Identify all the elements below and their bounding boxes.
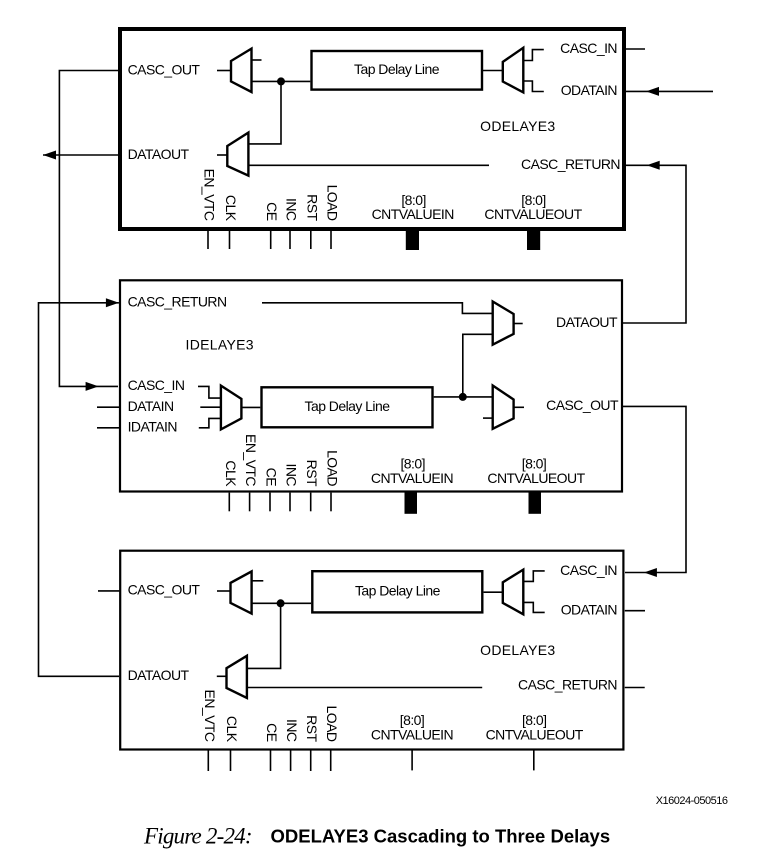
mux M4 input select (middle) [221,386,242,430]
wire DATAIN to M4 [200,406,221,408]
stub M5 output [514,323,523,325]
wire delay box to mux M3 [483,70,503,72]
wire node down to M2 [248,81,281,143]
wire delay out to M6 with node [434,396,493,398]
wire M7 to delay box with node [252,602,312,604]
pin CLK (top block) [229,231,231,249]
pin INC (bottom block) [290,750,292,771]
pin CNTVALUEOUT (bottom block) [533,750,535,770]
wire ODATAIN top-right [626,90,713,92]
stub IDATAIN external [97,427,119,429]
wire M2 lower input from CASC_RETURN [248,164,489,166]
bus CNTVALUEOUT (top block) [527,229,540,250]
svg-text:DATAOUT: DATAOUT [556,314,618,330]
svg-text:Tap Delay Line: Tap Delay Line [305,398,391,414]
pin INC (top block) [289,231,291,249]
pin RST (bottom block) [310,750,312,771]
svg-text:CASC_IN: CASC_IN [560,562,617,578]
svg-text:CASC_RETURN: CASC_RETURN [128,294,227,310]
svg-text:CASC_IN: CASC_IN [560,40,617,56]
pin RST (middle) [310,493,312,512]
svg-text:DATAOUT: DATAOUT [128,146,190,162]
pin EN_VTC (bottom block) [207,750,209,771]
svg-text:CNTVALUEOUT: CNTVALUEOUT [484,206,582,222]
svg-text:DATAIN: DATAIN [128,398,174,414]
svg-text:X16024-050516: X16024-050516 [656,795,728,807]
arrowhead top CASC_RETURN [647,161,660,170]
svg-text:CE: CE [264,202,280,221]
pin CE (top block) [270,231,272,249]
wire middle DATAOUT to top CASC_RETURN (right) [623,165,686,323]
svg-text:CASC_OUT: CASC_OUT [128,582,201,598]
svg-text:LOAD: LOAD [325,450,341,486]
stub M6 lower input [483,417,493,419]
arrowhead into middle CASC_RETURN [106,298,119,307]
wire M8 lower input from CASC_RETURN [247,687,482,689]
stub CASC_OUT external (bottom block) [98,590,119,592]
wire middle CASC_OUT to bottom CASC_IN [623,406,686,572]
wire M3 elbow to ODATAIN [523,81,544,92]
svg-text:[8:0]: [8:0] [400,712,425,728]
delay box Tap Delay Line (bottom block) [312,571,482,612]
wire M4 to delay box [241,406,260,408]
svg-text:CLK: CLK [224,716,240,743]
svg-text:ODATAIN: ODATAIN [561,602,617,618]
bus CNTVALUEIN (middle) [405,491,418,514]
pin LOAD (bottom block) [330,750,332,771]
pin RST (top block) [310,231,312,249]
stub DATAIN external [97,406,119,408]
pin EN_VTC (middle) [249,493,251,512]
wire IDATAIN elbow to M4 [199,418,221,427]
svg-text:CNTVALUEOUT: CNTVALUEOUT [487,470,585,486]
svg-text:CNTVALUEIN: CNTVALUEIN [371,470,453,486]
pin EN_VTC (top block) [207,231,209,249]
node junction dot (top block) [277,77,285,85]
mux M7 CASC_OUT (bottom block) [231,571,252,613]
wire M3 elbow to CASC_IN [523,50,544,61]
pin CLK (middle) [228,493,230,512]
bus CNTVALUEOUT (middle) [529,491,542,514]
arrowhead bottom CASC_IN [644,568,657,577]
wire bottom DATAOUT to middle CASC_RETURN (left tall) [39,303,120,677]
svg-text:RST: RST [304,715,320,742]
svg-text:CLK: CLK [223,460,239,487]
svg-text:LOAD: LOAD [325,185,341,221]
svg-text:ODELAYE3: ODELAYE3 [480,642,555,658]
svg-text:Tap Delay Line: Tap Delay Line [354,61,440,77]
svg-text:RST: RST [304,460,320,487]
svg-text:INC: INC [284,719,300,742]
pin CNTVALUEIN (bottom block) [411,750,413,770]
stub CASC_IN top-right [626,48,645,50]
svg-text:Tap Delay Line: Tap Delay Line [355,583,441,599]
stub M7 top input [252,580,264,582]
mux M1 CASC_OUT (top block) [231,49,252,92]
pin INC (middle) [289,493,291,512]
mux M5 DATAOUT (middle) [493,302,514,345]
delay box Tap Delay Line (top block) [312,51,483,90]
wire DATAOUT top-left out [43,154,118,156]
wire stub label to mux M2 [217,154,227,156]
svg-text:Figure 2-24:: Figure 2-24: [143,824,252,849]
svg-text:IDELAYE3: IDELAYE3 [186,337,254,353]
svg-text:CNTVALUEOUT: CNTVALUEOUT [486,727,584,743]
arrowhead ODATAIN [646,87,659,96]
wire delay box to mux M9 [484,591,503,593]
svg-text:CE: CE [264,723,280,742]
arrowhead into middle CASC_IN [86,382,99,391]
pin CLK (bottom block) [230,750,232,771]
svg-text:ODATAIN: ODATAIN [561,82,617,98]
wire node down to M8 [247,603,281,668]
mux M6 CASC_OUT (middle) [493,386,514,429]
node junction dot (middle) [459,393,467,401]
svg-text:CASC_IN: CASC_IN [128,377,185,393]
bus CNTVALUEIN (top block) [406,229,419,250]
stub M6 output [514,406,524,408]
wire node up to M5 [463,334,493,397]
wire stub label to mux M7 [217,590,231,592]
mux M8 DATAOUT (bottom block) [227,656,247,698]
svg-text:LOAD: LOAD [324,706,340,742]
block outline ODELAYE3 bottom [120,551,623,750]
svg-text:EN_VTC: EN_VTC [202,169,218,221]
svg-text:CASC_RETURN: CASC_RETURN [521,156,620,172]
svg-text:INC: INC [284,464,300,487]
svg-text:CASC_OUT: CASC_OUT [546,397,619,413]
pin CE (middle) [269,493,271,512]
stub M1 top input [252,59,262,61]
svg-text:CASC_RETURN: CASC_RETURN [518,676,617,692]
stub ODATAIN external (bottom block) [625,610,645,612]
wire CASC_OUT top-left to middle CASC_IN [59,71,118,387]
pin LOAD (middle) [330,493,332,512]
mux M3 ODATAIN select (top block) [503,48,524,93]
arrowhead DATAOUT out [43,151,56,160]
wire M9 elbow to ODATAIN [523,602,544,612]
node junction dot (bottom block) [277,599,285,607]
wire M9 elbow to CASC_IN [523,571,544,582]
pin CE (bottom block) [270,750,272,771]
wire stub label to mux M8 [217,675,227,677]
svg-text:CLK: CLK [223,195,239,222]
block outline ODELAYE3 top [120,29,624,229]
svg-text:DATAOUT: DATAOUT [128,667,190,683]
svg-text:INC: INC [284,198,300,221]
svg-text:CASC_OUT: CASC_OUT [128,61,201,77]
wire CASC_IN elbow to M4 [198,386,221,398]
svg-text:[8:0]: [8:0] [522,712,547,728]
svg-text:ODELAYE3 Cascading to Three De: ODELAYE3 Cascading to Three Delays [271,826,611,847]
svg-text:CNTVALUEIN: CNTVALUEIN [372,206,454,222]
svg-text:CE: CE [264,468,280,487]
pin LOAD (top block) [330,231,332,249]
block outline IDELAYE3 [120,280,622,491]
svg-text:IDATAIN: IDATAIN [128,419,177,435]
wire M1 to tap delay line with node [252,80,311,82]
svg-text:EN_VTC: EN_VTC [243,434,259,486]
svg-text:EN_VTC: EN_VTC [202,690,218,742]
svg-text:RST: RST [304,194,320,221]
svg-text:ODELAYE3: ODELAYE3 [480,118,555,134]
mux M2 DATAOUT (top block) [227,133,248,176]
svg-text:CNTVALUEIN: CNTVALUEIN [371,727,453,743]
stub CASC_RETURN external (bottom block) [625,687,645,689]
mux M9 ODATAIN select (bottom block) [503,570,524,615]
delay box Tap Delay Line (middle) [262,387,433,427]
wire stub label to mux M1 [217,70,231,72]
wire CASC_RETURN internal to M5 [262,303,493,314]
